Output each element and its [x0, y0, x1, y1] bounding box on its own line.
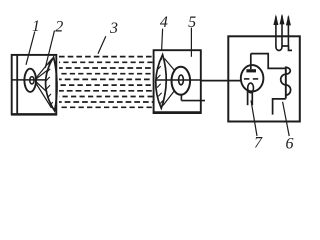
- svg-text:4: 4: [160, 14, 168, 31]
- leader 7: [251, 101, 257, 137]
- converging ray: [165, 59, 175, 71]
- optical axis: [12, 79, 46, 81]
- lens 4 hatching: [157, 59, 163, 104]
- svg-text:6: 6: [286, 136, 294, 153]
- bar shaft2 to shaft3: [282, 45, 289, 47]
- tube grid dash: [253, 78, 258, 80]
- coil bottom lead: [273, 99, 286, 115]
- inner wall of box A: [16, 55, 18, 114]
- light ray: [36, 59, 53, 79]
- axis through box B: [156, 79, 201, 81]
- dashed light beam 3: [59, 57, 154, 108]
- svg-text:2: 2: [55, 19, 63, 36]
- relay coil 6 core bar: [285, 66, 287, 98]
- alarm arrow shaft: [281, 16, 283, 48]
- wire box B to box C: [201, 80, 241, 82]
- arrowhead: [286, 15, 291, 26]
- anode lead: [250, 54, 252, 70]
- lens 4: [156, 55, 166, 109]
- box A lamp housing: [12, 55, 57, 114]
- leader 2: [45, 31, 54, 69]
- tube anode bar: [246, 69, 256, 72]
- photocell inner electrode: [179, 75, 184, 85]
- svg-text:5: 5: [188, 14, 196, 31]
- alarm arrow shaft: [287, 17, 289, 47]
- condenser lens 2: [46, 57, 57, 111]
- tube prong: [251, 92, 253, 106]
- stub wire from stem: [181, 100, 205, 102]
- light ray: [36, 71, 47, 80]
- leader 6: [283, 102, 290, 136]
- svg-text:7: 7: [254, 135, 263, 152]
- lamp filament: [30, 77, 34, 84]
- leader 1: [26, 32, 35, 65]
- tube 7 envelope: [241, 65, 264, 91]
- leader 4: [162, 29, 163, 51]
- tube cathode oval: [248, 83, 254, 93]
- svg-text:1: 1: [32, 18, 40, 35]
- arrowhead: [273, 14, 278, 25]
- alarm arrow shaft: [275, 17, 277, 48]
- photocell stem: [180, 95, 182, 101]
- box B bottom edge (thick): [153, 111, 202, 114]
- leader 3: [98, 36, 106, 54]
- lens 2 hatching: [46, 61, 53, 106]
- photocell (detector): [172, 67, 191, 95]
- light ray: [36, 82, 47, 93]
- box A bottom edge (thick): [11, 113, 57, 115]
- anode wire to coil: [251, 54, 286, 69]
- relay coil 6 winding: [281, 67, 291, 95]
- arrowhead: [280, 14, 285, 25]
- box B receiver housing 5: [154, 50, 201, 113]
- light ray: [36, 83, 52, 109]
- svg-text:3: 3: [109, 20, 118, 37]
- converging ray: [163, 90, 175, 105]
- step hook: [289, 46, 293, 50]
- U loop under arrows: [276, 47, 282, 51]
- tube grid dash: [244, 78, 249, 80]
- leader 5: [190, 28, 192, 57]
- box C relay unit: [228, 36, 299, 121]
- tube prong: [247, 91, 249, 105]
- lamp 1: [24, 69, 36, 92]
